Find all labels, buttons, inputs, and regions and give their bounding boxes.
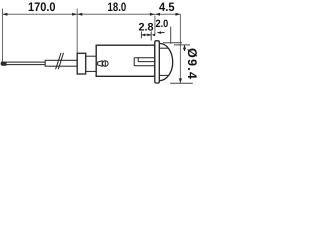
inner circle detail: [103, 61, 109, 67]
dome inner bottom line: [160, 74, 169, 76]
rear cap rectangle: [77, 53, 86, 74]
lead wire top line: [1, 61, 46, 63]
dia 9.4 top extension line B: [174, 44, 190, 46]
2.8 dimension: left tick: [140, 31, 142, 38]
slot detail middle line: [138, 61, 155, 63]
2.0 leader vertical: [170, 27, 172, 44]
break slash 1: [56, 53, 61, 69]
long vertical line right x180: [179, 14, 181, 83]
flange rectangle: [155, 41, 160, 83]
arrow pair at x77: [72, 13, 77, 16]
dia 9.4 up arrow: [184, 46, 186, 52]
arrow right tip of 4.5: [176, 13, 181, 16]
dome lens outline: [160, 43, 173, 80]
extension line at cap front x77: [76, 9, 78, 54]
dome inner top line: [160, 47, 169, 49]
inner circle vertical line: [104, 61, 106, 67]
dia 9.4 top extension line A: [163, 42, 182, 44]
neck section top line: [86, 55, 97, 57]
arrow left tip of 170.0: [3, 13, 8, 16]
2.8 extra right arrow: [152, 34, 156, 37]
2.8 dimension: right tick: [150, 31, 152, 40]
slot detail inner vertical: [137, 58, 139, 62]
wire sleeve rectangle: [45, 60, 77, 66]
neck section bottom line: [86, 70, 97, 72]
svg-text:18.0: 18.0: [108, 0, 127, 14]
extension line left end of wire: [2, 9, 4, 62]
slot detail left edge: [133, 58, 135, 66]
2.8 double arrow: [142, 34, 151, 36]
slot detail outer bottom: [134, 65, 155, 67]
dia 9.4 bottom extension line: [170, 82, 193, 84]
dia 9.4 down arrow at x180 bottom: [179, 78, 182, 83]
lead wire rounded tip: [1, 62, 7, 66]
svg-text:Ø9.4: Ø9.4: [185, 48, 199, 80]
svg-text:170.0: 170.0: [28, 0, 56, 14]
main horizontal dimension line: [3, 13, 181, 15]
lamp body rectangle: [96, 45, 155, 76]
extension line at flange left x155: [154, 16, 156, 35]
arrow pair at x155: [150, 13, 155, 16]
slot detail outer top: [134, 57, 155, 59]
lead wire bottom line: [1, 64, 46, 66]
inner wedge detail: [98, 61, 103, 67]
svg-text:4.5: 4.5: [159, 0, 175, 14]
2.0 dimension line with left arrow: [158, 32, 165, 34]
svg-text:2.0: 2.0: [156, 18, 169, 30]
break slash 2: [58, 53, 63, 69]
